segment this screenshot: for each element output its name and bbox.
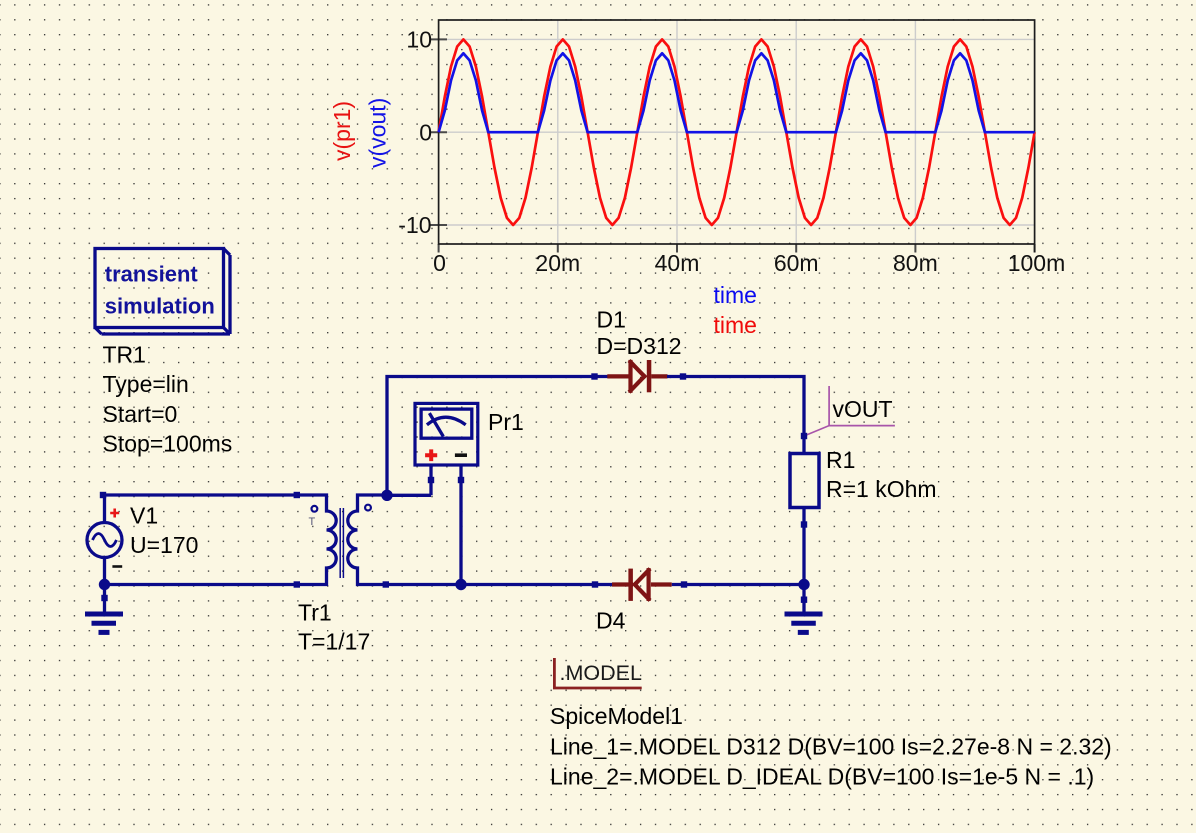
svg-text:R1: R1 [826,447,855,473]
svg-text:V1: V1 [130,503,158,529]
y-axis labels [398,27,432,239]
junction B (Pr1 minus to bottom rail) [455,579,466,590]
svg-text:10: 10 [406,27,432,53]
bottom rail secondary [386,583,804,586]
svg-text:SpiceModel1: SpiceModel1 [550,703,683,729]
svg-text:vOUT: vOUT [833,396,893,422]
svg-text:.MODEL: .MODEL [560,661,642,685]
wire V1 top [105,495,297,523]
svg-text:v(vout): v(vout) [365,98,391,168]
junction A [381,490,392,501]
svg-text:Pr1: Pr1 [488,409,524,435]
resistor R1 [790,454,819,508]
wire R1 bottom [802,508,805,585]
svg-text:80m: 80m [893,250,938,276]
svg-text:Start=0: Start=0 [103,401,178,427]
pin R1 bottom [801,521,807,527]
node label vOUT [801,386,895,439]
source V1 [87,492,122,567]
curve v(pr1) red [439,39,1035,225]
svg-text:100m: 100m [1008,250,1066,276]
junction at V1 bottom [99,579,110,590]
transformer Tr1 [294,492,389,588]
wire D1 right to R1 top [667,377,804,454]
transient simulation box [95,249,230,335]
svg-text:0: 0 [433,250,446,276]
pins D1 [591,373,597,379]
diagram ticks [431,39,1035,252]
svg-text:D4: D4 [596,608,626,634]
svg-text:Line_2=.MODEL D_IDEAL D(BV=100: Line_2=.MODEL D_IDEAL D(BV=100 Is=1e-5 N… [550,763,1094,789]
wire V1 bottom rail [105,558,297,585]
svg-text:0: 0 [419,119,432,145]
diode D4 [612,569,672,601]
TR1 properties text [103,342,233,457]
diagram grid [439,20,1035,244]
svg-text:40m: 40m [655,250,700,276]
x-axis labels [433,250,1065,276]
svg-text:Line_1=.MODEL D312 D(BV=100 Is: Line_1=.MODEL D312 D(BV=100 Is=2.27e-8 N… [550,733,1112,759]
ground (left) [85,585,123,633]
svg-text:TR1: TR1 [103,342,146,368]
ground (right) [785,585,823,633]
svg-text:Type=lin: Type=lin [103,371,189,397]
svg-text:20m: 20m [535,250,580,276]
voltmeter Pr1 [415,403,478,584]
svg-text:60m: 60m [774,250,819,276]
wire junction up to D1 row [387,377,608,496]
svg-text:time: time [714,282,757,308]
svg-text:v(pr1): v(pr1) [329,101,355,161]
svg-text:Stop=100ms: Stop=100ms [103,430,233,456]
svg-text:T: T [309,516,316,528]
diode D1 [607,360,667,392]
svg-text:simulation: simulation [105,294,215,319]
SPICE .MODEL component [554,658,642,688]
svg-text:D1: D1 [597,307,626,333]
svg-text:R=1 kOhm: R=1 kOhm [826,476,937,502]
pins D4 [592,581,598,587]
diagram frame [439,20,1035,244]
svg-text:time: time [714,312,757,338]
svg-text:D=D312: D=D312 [597,333,682,359]
svg-text:T=1/17: T=1/17 [298,629,370,655]
svg-text:-10: -10 [398,212,431,238]
svg-text:U=170: U=170 [130,532,198,558]
junction C at right ground [798,579,809,590]
svg-text:transient: transient [105,262,199,287]
curve v(vout) blue [439,53,1035,132]
wire secondary top to junction [387,494,431,497]
svg-text:Tr1: Tr1 [298,600,332,626]
